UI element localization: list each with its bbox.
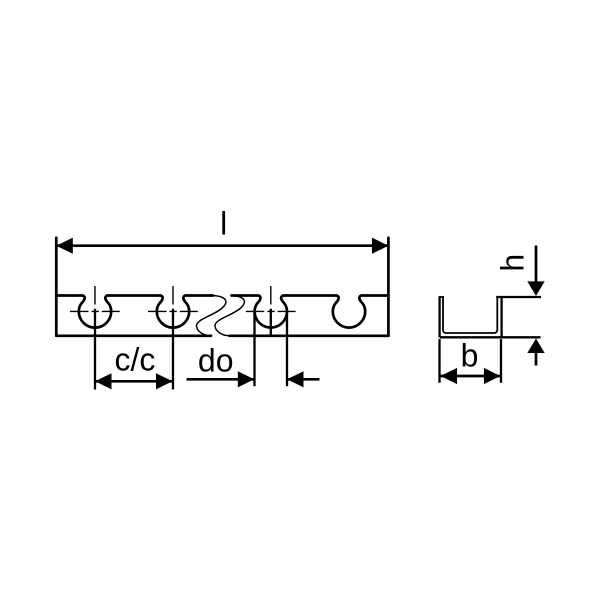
dimension line c/c: [95, 380, 173, 383]
svg-text:h: h: [495, 254, 531, 272]
arrowhead l left: [56, 238, 73, 254]
arrowhead b left: [441, 368, 458, 384]
rail top edge left segment with keyhole slots 1 and 2: [56, 296, 213, 328]
extension line left of dimension do: [253, 311, 255, 386]
hole 1 horizontal centerline: [70, 310, 120, 312]
rail top edge right segment with keyhole slots 3 and 4: [232, 296, 389, 328]
svg-text:l: l: [220, 206, 227, 242]
arrowhead h down: [527, 281, 544, 296]
rail bottom edge left segment: [56, 334, 211, 337]
svg-text:do: do: [198, 343, 234, 379]
hole 3 horizontal centerline: [246, 310, 296, 312]
hole 3 vertical centerline upper dash: [270, 286, 272, 305]
extension line right of dimension do: [286, 311, 288, 386]
hole 1 centerline lower run / extension line of dimension c/c: [94, 309, 96, 390]
channel section right wall outer line: [500, 297, 502, 337]
rail left edge merged with extension line of dimension l: [55, 238, 58, 336]
channel section left wall top cap: [439, 296, 445, 298]
hole 3 centerline lower run: [270, 309, 272, 337]
arrowhead l right: [372, 238, 389, 254]
channel section right wall top edge merged with upper extension line of dimension h: [496, 296, 541, 298]
channel section left wall outer line: [438, 297, 440, 337]
arrowhead do left: [238, 371, 255, 387]
channel section inner contour: [443, 297, 497, 333]
hole 2 centerline lower run / extension line of dimension c/c: [172, 309, 174, 390]
dimension h upper leader: [535, 246, 538, 283]
extension lines of dimension b: [440, 339, 502, 383]
hole 1 vertical centerline upper dash: [94, 286, 96, 305]
arrowhead c/c left: [95, 373, 112, 389]
arrowhead do right: [287, 371, 304, 387]
rail right edge merged with extension line of dimension l: [387, 238, 390, 336]
dimension line b: [441, 375, 501, 378]
rail bottom edge right segment: [230, 334, 389, 337]
svg-text:b: b: [461, 338, 479, 374]
svg-text:c/c: c/c: [114, 342, 155, 378]
hole 2 horizontal centerline: [148, 310, 198, 312]
dimension line l: [56, 244, 388, 247]
arrowhead c/c right: [156, 373, 173, 389]
channel section outer bottom merged with lower extension line of dimension h: [440, 336, 541, 338]
dimension do left leader: [187, 378, 255, 381]
arrowhead b right: [484, 368, 501, 384]
dimension do right leader: [287, 378, 320, 381]
hole 2 vertical centerline upper dash: [172, 286, 174, 305]
break line left S-curve: [196, 296, 225, 336]
break line right S-curve: [215, 296, 244, 336]
dimension h lower leader: [535, 352, 538, 366]
arrowhead h up: [527, 339, 544, 354]
